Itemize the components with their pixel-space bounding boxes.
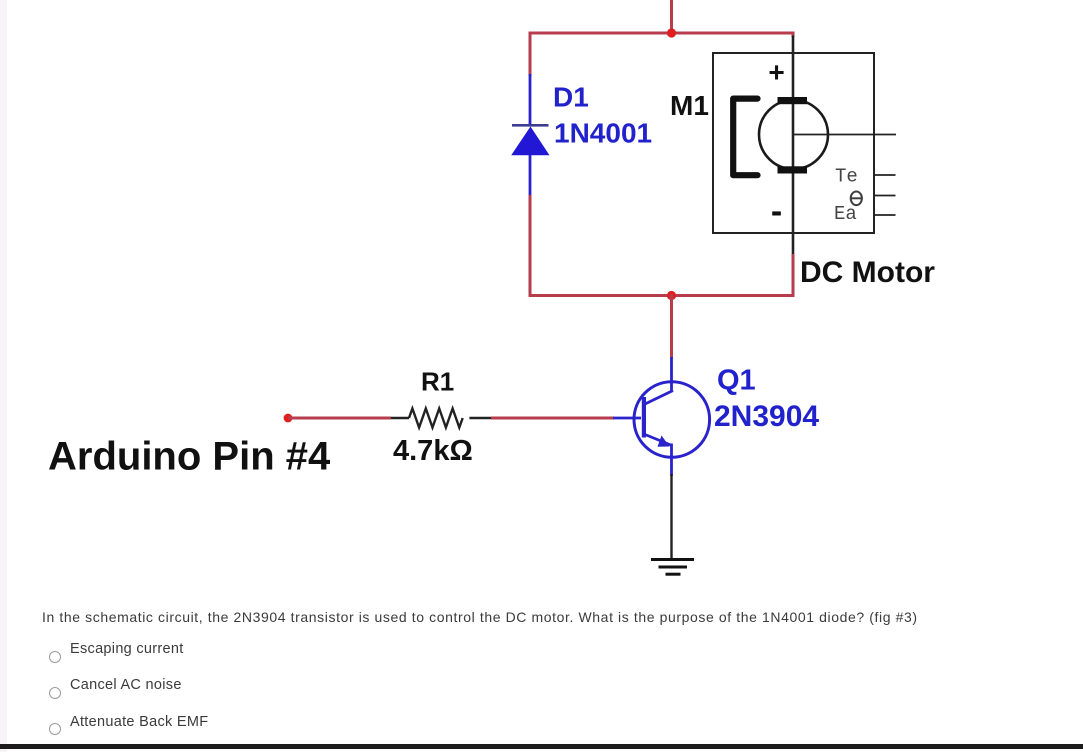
diode D1 triangle <box>511 127 549 156</box>
wire top vertical feed <box>670 0 673 35</box>
svg-text:R1: R1 <box>421 367 454 397</box>
motor M1 box <box>713 53 874 233</box>
transistor Q1 emitter diagonal <box>645 435 672 446</box>
wire collector red <box>670 294 673 359</box>
diode D1 cathode bar <box>512 124 549 127</box>
wire motor through lead (black) <box>792 36 795 257</box>
transistor Q1 base bar <box>642 397 646 438</box>
node junction bottom <box>667 291 676 300</box>
svg-text:Te: Te <box>835 166 858 188</box>
motor pin Ea <box>874 214 896 216</box>
option radio 2 <box>49 687 61 699</box>
wire base right red <box>491 417 614 420</box>
motor rotor circle <box>759 100 828 169</box>
motor pin Te <box>874 174 896 176</box>
bottom dark bar <box>0 744 1083 749</box>
wire emitter black <box>670 474 672 559</box>
wire base left red <box>288 417 391 420</box>
option radio 3 <box>49 723 61 735</box>
diode D1 bottom lead <box>529 155 532 197</box>
motor pin theta <box>874 195 896 197</box>
transistor Q1 circle <box>634 382 710 458</box>
transistor Q1 collector lead blue <box>670 357 673 392</box>
motor brush bar top <box>778 97 808 104</box>
resistor R1 zigzag <box>409 409 463 428</box>
motor shaft line <box>794 134 896 136</box>
motor stator bracket <box>733 99 757 176</box>
node junction top <box>667 28 676 37</box>
diode D1 top lead <box>529 74 532 126</box>
wire top horizontal <box>529 32 795 35</box>
svg-text:Ea: Ea <box>834 203 857 225</box>
option text 3 <box>70 714 208 730</box>
wire left vertical lower (red) <box>529 195 532 297</box>
svg-text:+: + <box>768 57 784 88</box>
svg-text:D1: D1 <box>553 82 589 113</box>
wire right vertical red top stub <box>792 32 795 38</box>
resistor R1 right lead <box>469 417 491 419</box>
pin label theta <box>851 192 862 206</box>
transistor Q1 collector diagonal <box>645 391 673 405</box>
wire bottom horizontal <box>529 294 795 297</box>
svg-text:M1: M1 <box>670 90 709 121</box>
option text 2 <box>70 677 182 693</box>
left edge tint <box>0 0 7 752</box>
wire right vertical red bottom stub <box>792 254 795 297</box>
svg-text:Q1: Q1 <box>717 365 756 397</box>
transistor Q1 emitter lead blue <box>670 444 673 477</box>
option radio 1 <box>49 651 61 663</box>
node Arduino pin dot <box>284 414 293 423</box>
wire left vertical upper (red) <box>529 32 532 77</box>
svg-text:1N4001: 1N4001 <box>554 118 652 149</box>
svg-text:2N3904: 2N3904 <box>714 400 819 433</box>
svg-text:4.7kΩ: 4.7kΩ <box>393 435 473 467</box>
svg-text:DC Motor: DC Motor <box>800 256 935 289</box>
question text <box>42 609 918 625</box>
transistor Q1 base lead blue <box>613 417 641 420</box>
option text 1 <box>70 641 184 657</box>
resistor R1 left lead <box>391 417 409 419</box>
svg-text:-: - <box>771 193 782 231</box>
svg-text:Arduino Pin #4: Arduino Pin #4 <box>48 435 331 479</box>
transistor Q1 emitter arrow <box>658 436 670 447</box>
motor brush bar bottom <box>778 166 808 173</box>
ground <box>651 558 694 561</box>
